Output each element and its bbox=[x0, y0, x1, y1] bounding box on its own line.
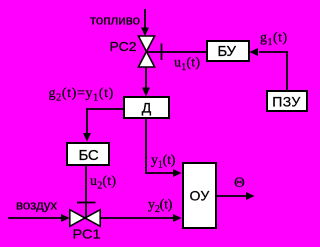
svg-text:g1(t): g1(t) bbox=[260, 31, 288, 49]
svg-text:воздух: воздух bbox=[16, 198, 58, 213]
svg-text:ОУ: ОУ bbox=[189, 188, 209, 204]
wire РС2 to Д bbox=[145, 67, 147, 89]
block БС bbox=[67, 143, 109, 165]
svg-text:Д: Д bbox=[142, 100, 152, 116]
arrowhead into ОУ upper input bbox=[173, 169, 182, 177]
svg-text:y2(t): y2(t) bbox=[148, 198, 173, 216]
wire БУ to РС2 actuator bbox=[147, 51, 206, 53]
arrowhead into БУ bbox=[250, 48, 259, 56]
svg-text:Θ: Θ bbox=[234, 175, 245, 191]
svg-text:БУ: БУ bbox=[217, 43, 236, 60]
svg-text:РС2: РС2 bbox=[110, 39, 137, 54]
svg-text:y1(t): y1(t) bbox=[151, 153, 176, 171]
wire Д to ОУ bbox=[146, 119, 174, 173]
block ПЗУ bbox=[267, 91, 307, 111]
arrowhead output bbox=[246, 192, 255, 200]
wire ОУ output bbox=[216, 195, 247, 197]
arrowhead into valve РС2 bbox=[141, 28, 149, 37]
wire ПЗУ to БУ bbox=[259, 52, 287, 90]
arrowhead into БС bbox=[83, 133, 91, 142]
block БУ bbox=[207, 41, 249, 61]
wire air inlet bbox=[8, 217, 62, 219]
actuator tick of РС2 bbox=[161, 44, 163, 61]
svg-text:топливо: топливо bbox=[90, 13, 140, 28]
svg-text:БС: БС bbox=[78, 147, 98, 164]
valve РС2 bbox=[138, 36, 154, 67]
arrowhead into Д bbox=[142, 88, 150, 97]
wire Д to БС bbox=[87, 109, 123, 134]
svg-text:ПЗУ: ПЗУ bbox=[272, 94, 300, 110]
block Д bbox=[124, 97, 169, 118]
svg-text:u1(t): u1(t) bbox=[174, 56, 200, 74]
svg-text:u2(t): u2(t) bbox=[90, 174, 116, 192]
wire БС to РС1 actuator bbox=[85, 165, 87, 218]
arrowhead into valve РС1 bbox=[61, 214, 70, 222]
arrowhead into ОУ lower input bbox=[173, 214, 182, 222]
actuator tick of РС1 bbox=[77, 202, 96, 204]
block ОУ bbox=[183, 163, 216, 228]
svg-text:РС1: РС1 bbox=[73, 227, 101, 242]
wire fuel inlet bbox=[144, 9, 146, 28]
wire РС1 to ОУ bbox=[101, 217, 174, 219]
valve РС1 bbox=[70, 210, 100, 227]
